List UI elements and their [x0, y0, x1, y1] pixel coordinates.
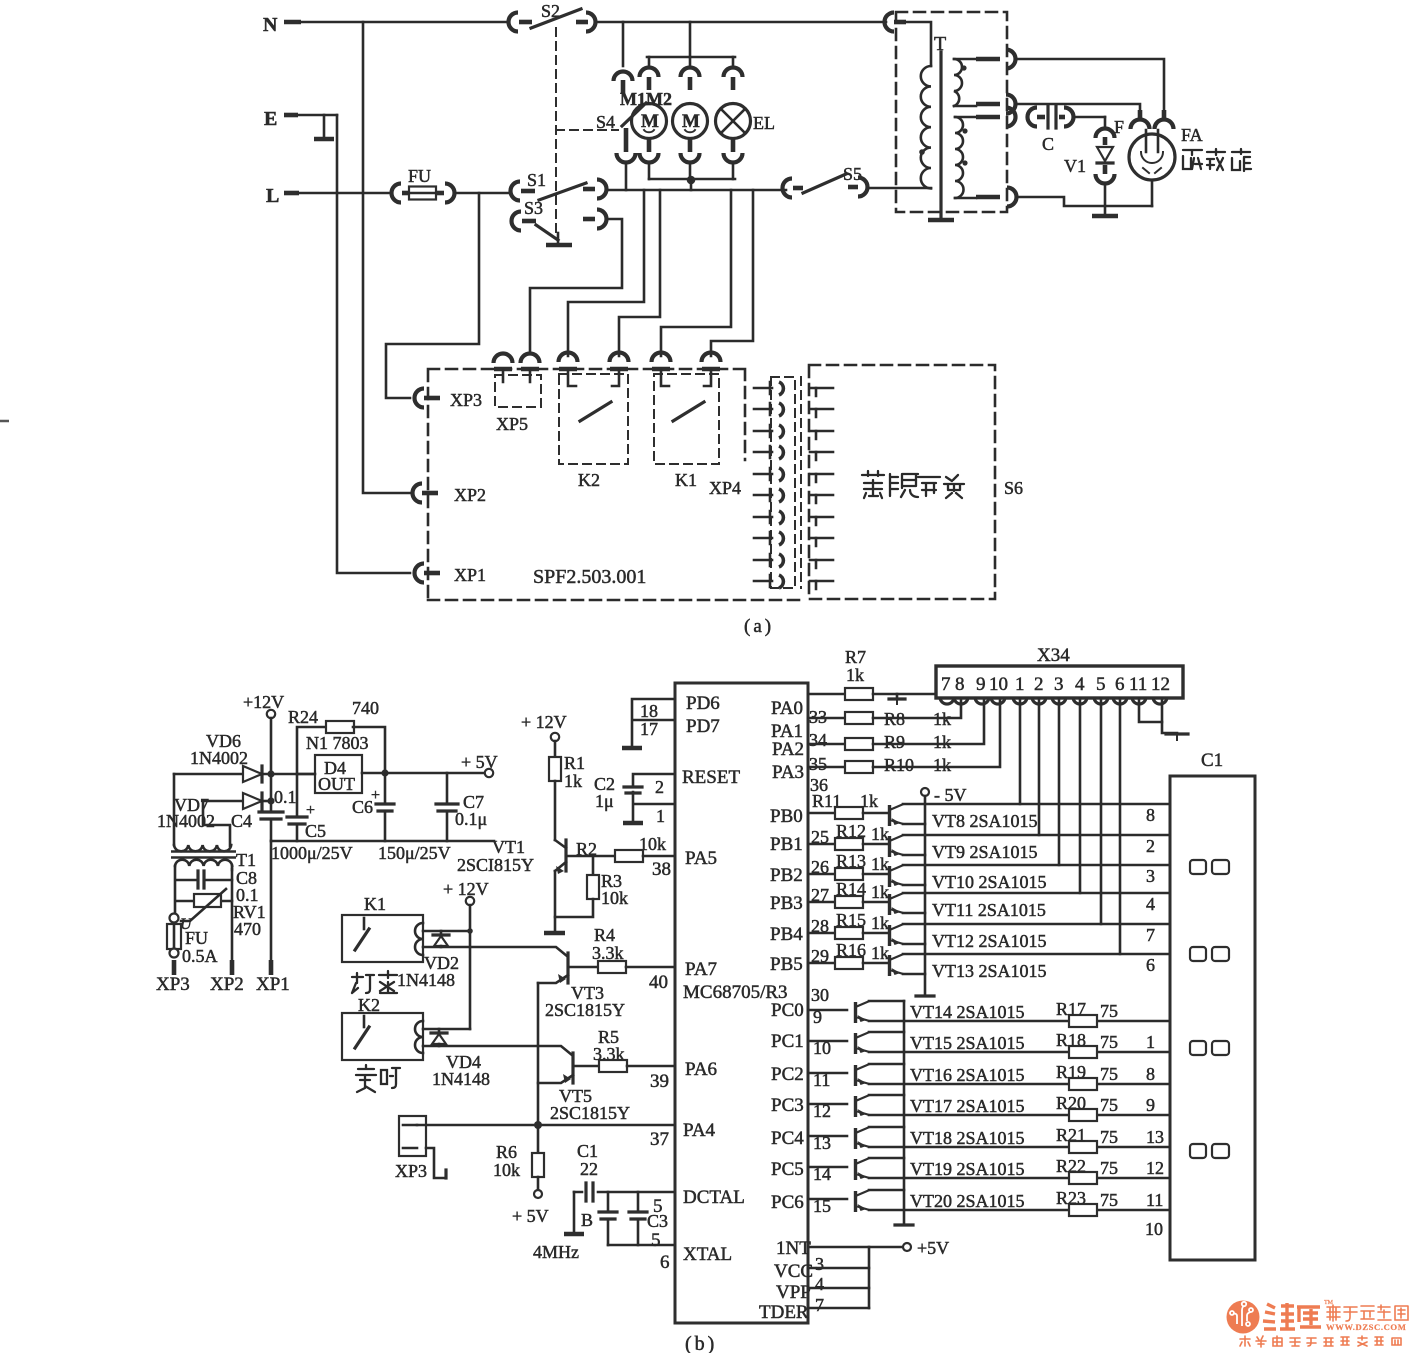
svg-text:R10: R10	[884, 755, 914, 775]
svg-text:R14: R14	[836, 879, 866, 899]
motor branch M1 leads	[640, 57, 659, 179]
wire FU branch to XP3	[386, 193, 479, 398]
display segments group1	[1190, 860, 1229, 874]
svg-text:1N4148: 1N4148	[432, 1069, 490, 1089]
motor branch M2 leads	[681, 57, 700, 179]
svg-text:OUT: OUT	[318, 774, 355, 794]
wire N rail	[300, 21, 886, 24]
svg-text:V1: V1	[1064, 156, 1086, 176]
svg-text:PB2: PB2	[770, 865, 803, 886]
svg-text:1k: 1k	[933, 755, 951, 775]
varistor RV1	[176, 889, 266, 939]
svg-text:PB3: PB3	[770, 893, 803, 914]
svg-text:1k: 1k	[564, 771, 582, 791]
svg-text:R9: R9	[884, 732, 905, 752]
XP4 pins	[754, 382, 783, 588]
svg-text:XTAL: XTAL	[683, 1244, 732, 1265]
regulator N1 7803	[297, 733, 385, 794]
wire VT3 VT5 emitters to PA4	[537, 983, 540, 1125]
relay contact K2	[559, 353, 629, 491]
svg-text:+5V: +5V	[917, 1238, 949, 1258]
wire VT13 collector to C1 pin 6	[903, 954, 1170, 975]
transformer T box	[896, 12, 1007, 212]
svg-text:0.1μ: 0.1μ	[455, 809, 487, 829]
svg-text:VT8 2SA1015: VT8 2SA1015	[932, 811, 1038, 831]
junction motors to main	[687, 176, 696, 190]
capacitor C7	[436, 773, 487, 841]
watermark url	[1326, 1322, 1406, 1332]
resistor R7	[808, 647, 947, 700]
svg-text:11: 11	[813, 1070, 830, 1090]
S6 pins	[810, 388, 833, 589]
resistor R23	[869, 1188, 1170, 1216]
svg-text:12: 12	[1151, 674, 1170, 695]
display segments group2	[1190, 947, 1229, 961]
svg-text:17: 17	[640, 719, 658, 739]
svg-text:4: 4	[1146, 894, 1155, 914]
svg-text:R19: R19	[1056, 1062, 1086, 1082]
svg-text:7: 7	[815, 1295, 824, 1315]
wire ground rail	[271, 840, 494, 843]
label timing CJK	[356, 1065, 400, 1092]
svg-text:M1M2: M1M2	[620, 89, 672, 109]
svg-text:C5: C5	[305, 821, 326, 841]
svg-text:K1: K1	[675, 470, 697, 490]
resistor R3	[555, 856, 628, 917]
transistor VT19	[808, 1158, 1025, 1184]
svg-text:R24: R24	[288, 707, 318, 727]
svg-text:7: 7	[1146, 925, 1155, 945]
transistor VT8	[890, 804, 1038, 831]
label magnetron CJK	[1183, 149, 1251, 171]
svg-text:XP4: XP4	[709, 478, 741, 498]
node E	[264, 108, 298, 130]
svg-text:PD6: PD6	[686, 693, 720, 714]
membrane switch S6 box	[809, 365, 1023, 599]
ground VT1 emitter	[544, 931, 565, 936]
fuse FU	[392, 166, 455, 203]
resistor R11	[808, 791, 889, 819]
svg-text:1μ: 1μ	[595, 791, 614, 811]
wire main to K2 pin1	[568, 190, 644, 356]
svg-text:R11: R11	[812, 791, 841, 811]
wire L to fuse	[298, 192, 390, 195]
wire VPP	[808, 1288, 869, 1315]
svg-text:PC4: PC4	[771, 1128, 804, 1149]
magnetron FA	[1129, 125, 1203, 206]
wire TDER	[808, 1247, 869, 1308]
transistor VT15	[808, 1032, 1025, 1058]
wire VT14-20 common vertical	[895, 1001, 913, 1225]
svg-text:29: 29	[811, 946, 829, 966]
svg-text:E: E	[264, 108, 277, 130]
svg-text:(a): (a)	[744, 616, 774, 637]
junction +12V rail	[267, 770, 274, 804]
wire K1 coil bottom to VT3 base	[423, 947, 567, 956]
transistor VT17	[808, 1095, 1025, 1121]
node XP2 power	[210, 869, 244, 995]
svg-text:VT1: VT1	[492, 837, 525, 857]
svg-text:14: 14	[813, 1164, 831, 1184]
node +5V	[461, 752, 498, 777]
svg-text:75: 75	[1100, 1001, 1118, 1021]
svg-text:11: 11	[1146, 1190, 1163, 1210]
svg-text:40: 40	[649, 972, 668, 993]
label 150u/25V	[378, 843, 451, 863]
transformer primary winding	[905, 22, 931, 188]
svg-text:26: 26	[811, 857, 829, 877]
diode VD2	[397, 931, 459, 990]
svg-text:6: 6	[1115, 674, 1125, 695]
wire T1 primary left	[174, 866, 177, 914]
transformer T1	[171, 774, 256, 870]
svg-text:3: 3	[1146, 866, 1155, 886]
svg-text:1k: 1k	[871, 913, 889, 933]
wire E to XP1 branch	[337, 115, 410, 573]
svg-text:12: 12	[813, 1101, 831, 1121]
svg-text:10: 10	[1145, 1219, 1163, 1239]
watermark logo	[1227, 1301, 1260, 1334]
IC U1 MC68705/R3 box	[675, 683, 808, 1323]
resistor R10	[808, 700, 1000, 795]
node N	[263, 14, 301, 36]
svg-text:FA: FA	[1181, 125, 1203, 145]
svg-text:2SC1815Y: 2SC1815Y	[550, 1103, 630, 1123]
svg-text:1000μ/25V: 1000μ/25V	[271, 843, 353, 863]
svg-text:1: 1	[1015, 674, 1025, 695]
svg-text:1k: 1k	[871, 824, 889, 844]
resistor R12	[808, 821, 889, 850]
svg-text:S3: S3	[524, 198, 543, 218]
svg-text:K2: K2	[578, 470, 600, 490]
label pin 30	[811, 985, 829, 1005]
wire motor top rail	[647, 56, 735, 59]
wire main to K1 pin2	[711, 190, 753, 356]
label membrane switch CJK	[862, 471, 964, 498]
svg-text:1k: 1k	[871, 854, 889, 874]
svg-text:PB4: PB4	[770, 924, 803, 945]
svg-text:R22: R22	[1056, 1156, 1086, 1176]
wire fuse to S1	[456, 192, 509, 195]
connector at transformer input	[885, 13, 907, 32]
svg-text:+ 12V: + 12V	[443, 879, 489, 899]
svg-text:0.1: 0.1	[274, 787, 297, 807]
wire XTAL	[533, 1242, 675, 1262]
svg-text:R23: R23	[1056, 1188, 1086, 1208]
svg-text:1k: 1k	[933, 732, 951, 752]
capacitor C6	[352, 776, 394, 841]
pins PD6 PD7	[622, 699, 675, 748]
resistor R14	[808, 879, 889, 908]
svg-text:FU: FU	[185, 928, 208, 948]
resistor R22	[869, 1156, 1170, 1184]
svg-text:PB5: PB5	[770, 954, 803, 975]
svg-text:15: 15	[813, 1196, 831, 1216]
wire X34 pin4 to VT11	[1079, 698, 1082, 893]
wire main to K1 pin1	[661, 190, 731, 356]
switch S1	[511, 170, 607, 201]
wire motor bottom rail	[649, 178, 735, 181]
svg-text:2SC1815Y: 2SC1815Y	[545, 1000, 625, 1020]
node -5V	[916, 785, 967, 996]
watermark slogan CJK	[1240, 1336, 1401, 1347]
svg-text:R20: R20	[1056, 1093, 1086, 1113]
svg-text:1k: 1k	[860, 791, 878, 811]
junction +5V rail	[381, 769, 483, 776]
node +12V supply	[243, 692, 284, 772]
resistor R19	[869, 1062, 1170, 1090]
svg-text:4: 4	[1075, 674, 1085, 695]
node L	[266, 185, 299, 207]
svg-text:PC6: PC6	[771, 1192, 804, 1213]
svg-text:11: 11	[1129, 674, 1147, 695]
svg-text:PC3: PC3	[771, 1095, 804, 1116]
wires X34 pins 11 12 to ground	[1139, 698, 1188, 740]
transistor VT14	[808, 1001, 1025, 1027]
resistor R2	[567, 834, 675, 862]
svg-text:PB1: PB1	[770, 834, 803, 855]
transistor VT12	[890, 924, 1047, 951]
transistor VT16	[808, 1064, 1025, 1090]
node F	[1114, 110, 1174, 137]
svg-text:75: 75	[1100, 1064, 1118, 1084]
svg-text:PC5: PC5	[771, 1159, 804, 1180]
svg-text:PD7: PD7	[686, 716, 720, 737]
ground crystal	[564, 1192, 584, 1234]
switch S5	[783, 164, 868, 198]
svg-text:470: 470	[234, 919, 261, 939]
resistor R1	[549, 741, 585, 840]
svg-text:28: 28	[811, 916, 829, 936]
svg-text:35: 35	[809, 754, 827, 774]
transistor VT1	[457, 837, 566, 931]
svg-text:9: 9	[1146, 1095, 1155, 1115]
wire sec1 bottom to F terminal	[1016, 104, 1140, 116]
capacitor C2 reset	[594, 774, 675, 826]
svg-text:R18: R18	[1056, 1030, 1086, 1050]
svg-text:F: F	[1114, 117, 1124, 137]
relay coil K2	[342, 995, 423, 1060]
svg-text:3: 3	[815, 1254, 824, 1274]
svg-text:PC0: PC0	[771, 1000, 804, 1021]
transistor VT9	[890, 835, 1038, 862]
svg-text:+: +	[371, 787, 380, 804]
svg-text:T1: T1	[236, 850, 256, 870]
resistor R21	[869, 1125, 1170, 1153]
svg-text:SPF2.503.001: SPF2.503.001	[533, 566, 646, 588]
svg-text:VT20 2SA1015: VT20 2SA1015	[910, 1191, 1025, 1211]
connector XP4	[709, 377, 801, 588]
svg-text:VT14 2SA1015: VT14 2SA1015	[910, 1002, 1025, 1022]
svg-text:25: 25	[811, 827, 829, 847]
wire VT12 collector to C1 pin 7	[903, 924, 1170, 945]
svg-text:PA5: PA5	[685, 848, 717, 869]
svg-text:6: 6	[1146, 955, 1155, 975]
transistor VT10	[890, 865, 1047, 892]
wire X34 pin2 to VT9	[1038, 698, 1041, 835]
svg-text:1N4002: 1N4002	[190, 748, 248, 768]
capacitor C5	[287, 774, 326, 841]
lamp EL	[716, 104, 776, 139]
svg-text:1N4148: 1N4148	[397, 970, 455, 990]
wire S1 to main line	[608, 189, 786, 192]
wire S3 right to XP5	[530, 219, 622, 352]
transformer secondary 1	[954, 50, 1016, 114]
svg-text:1: 1	[1146, 1032, 1155, 1052]
capacitor C8	[176, 868, 259, 905]
resistor R6	[493, 1128, 549, 1226]
svg-text:PA0: PA0	[771, 698, 803, 719]
node +12V R1	[521, 712, 567, 741]
wire K1 coil top	[423, 930, 470, 933]
svg-text:XP1: XP1	[256, 974, 290, 995]
resistor R18	[869, 1030, 1170, 1058]
svg-text:13: 13	[813, 1133, 831, 1153]
svg-text:PA2: PA2	[772, 739, 804, 760]
svg-text:PA6: PA6	[685, 1059, 717, 1080]
svg-text:WWW.DZSC.COM: WWW.DZSC.COM	[1326, 1322, 1406, 1332]
IC pin number labels left	[649, 859, 671, 1273]
svg-text:(b): (b)	[685, 1333, 717, 1353]
module box SPF2.503.001 dashed	[428, 369, 806, 600]
svg-text:1k: 1k	[871, 943, 889, 963]
svg-text:RESET: RESET	[682, 767, 740, 788]
svg-text:XP3: XP3	[156, 974, 190, 995]
ground stub pin8 area	[889, 694, 905, 704]
svg-text:34: 34	[809, 730, 827, 750]
crystal B	[581, 1192, 617, 1245]
svg-text:R7: R7	[845, 647, 866, 667]
svg-text:VPP: VPP	[776, 1282, 811, 1303]
wire VT11 collector to C1 pin 4	[903, 893, 1170, 914]
svg-text:VT9 2SA1015: VT9 2SA1015	[932, 842, 1038, 862]
node XP3 power	[156, 960, 190, 995]
wire sec2 bottom to magnetron	[1017, 197, 1152, 206]
svg-text:30: 30	[811, 985, 829, 1005]
display segments group4	[1190, 1144, 1229, 1158]
lamp EL leads	[724, 57, 743, 179]
svg-text:38: 38	[652, 859, 671, 880]
ground at V1	[1092, 214, 1118, 219]
svg-text:VT17 2SA1015: VT17 2SA1015	[910, 1096, 1025, 1116]
svg-text:R12: R12	[836, 821, 866, 841]
svg-text:5: 5	[1096, 674, 1106, 695]
svg-text:R4: R4	[594, 925, 615, 945]
svg-text:4: 4	[815, 1274, 824, 1294]
svg-text:S1: S1	[527, 170, 546, 190]
svg-text:1k: 1k	[871, 882, 889, 902]
resistor R17	[869, 999, 1170, 1027]
svg-text:PC1: PC1	[771, 1031, 804, 1052]
svg-text:0.5A: 0.5A	[182, 946, 218, 966]
transformer secondary 2 HV	[955, 108, 1017, 207]
svg-text:XP2: XP2	[210, 974, 244, 995]
svg-text:B: B	[581, 1210, 593, 1230]
svg-text:FU: FU	[408, 166, 431, 186]
diode VD6	[174, 731, 315, 782]
svg-text:PC2: PC2	[771, 1064, 804, 1085]
wire X34 pin1 to VT8	[1019, 698, 1022, 804]
svg-text:2: 2	[1146, 836, 1155, 856]
svg-text:PA3: PA3	[772, 762, 804, 783]
svg-text:VT18 2SA1015: VT18 2SA1015	[910, 1128, 1025, 1148]
svg-text:1: 1	[656, 806, 665, 826]
svg-text:N1 7803: N1 7803	[306, 733, 369, 753]
node +12V relays	[443, 879, 489, 1029]
fuse FU 0.5A	[167, 914, 218, 967]
svg-text:R13: R13	[836, 851, 866, 871]
svg-text:740: 740	[352, 698, 379, 718]
svg-text:PA4: PA4	[683, 1120, 716, 1141]
caption (a)	[744, 616, 774, 637]
svg-text:VT13 2SA1015: VT13 2SA1015	[932, 961, 1047, 981]
capacitor C4	[231, 787, 297, 841]
diode VD7	[157, 793, 271, 831]
transistor VT13	[890, 954, 1047, 981]
resistor R15	[808, 910, 889, 939]
svg-text:13: 13	[1146, 1127, 1164, 1147]
svg-text:XP3: XP3	[450, 390, 482, 410]
wire T1 primary right	[231, 866, 234, 870]
svg-text:8: 8	[1146, 805, 1155, 825]
svg-text:37: 37	[650, 1129, 669, 1150]
svg-text:9: 9	[813, 1007, 822, 1027]
svg-text:75: 75	[1100, 1190, 1118, 1210]
wire K2 coil bottom to VT5 base	[423, 1046, 572, 1055]
svg-text:8: 8	[955, 674, 965, 695]
junction K1 +12V	[467, 928, 473, 934]
svg-text:4MHz: 4MHz	[533, 1242, 579, 1262]
svg-text:R6: R6	[496, 1142, 517, 1162]
svg-text:5: 5	[651, 1230, 661, 1251]
wire VT9 collector to C1 pin 2	[903, 835, 1170, 856]
switch S4	[596, 22, 646, 190]
wire VCC	[808, 1268, 869, 1294]
transistor VT3	[538, 953, 625, 1020]
connector X34 box	[936, 645, 1183, 704]
svg-text:12: 12	[1146, 1158, 1164, 1178]
svg-text:6: 6	[660, 1252, 670, 1273]
resistor R16	[808, 940, 889, 969]
capacitor C3	[629, 1192, 668, 1245]
svg-text:R15: R15	[836, 910, 866, 930]
ground at E	[314, 115, 334, 139]
label pin 10	[1145, 1219, 1163, 1239]
svg-text:2: 2	[1034, 674, 1044, 695]
capacitor C1 crystal	[574, 1141, 675, 1201]
resistor R5	[593, 1027, 675, 1072]
transistor VT20	[808, 1190, 1025, 1216]
svg-text:27: 27	[811, 885, 829, 905]
svg-text:M: M	[682, 111, 700, 132]
svg-text:+12V: +12V	[243, 692, 284, 712]
wire K2 coil top	[423, 1028, 470, 1031]
transistor VT5	[538, 1053, 630, 1123]
svg-text:+ 5V: + 5V	[512, 1206, 549, 1226]
resistor R24	[288, 698, 385, 774]
resistor R8	[808, 700, 961, 729]
svg-text:2: 2	[655, 777, 664, 797]
svg-text:S6: S6	[1004, 478, 1023, 498]
svg-text:- 5V: - 5V	[934, 785, 967, 805]
wire S2-S1-S3 linkage dashed	[556, 28, 618, 232]
svg-text:PB0: PB0	[770, 806, 803, 827]
IC right pin labels	[759, 698, 813, 1323]
relay contact K1	[652, 353, 721, 491]
svg-text:TDER: TDER	[759, 1302, 809, 1323]
svg-text:10k: 10k	[493, 1160, 520, 1180]
display segments group3	[1190, 1041, 1229, 1055]
